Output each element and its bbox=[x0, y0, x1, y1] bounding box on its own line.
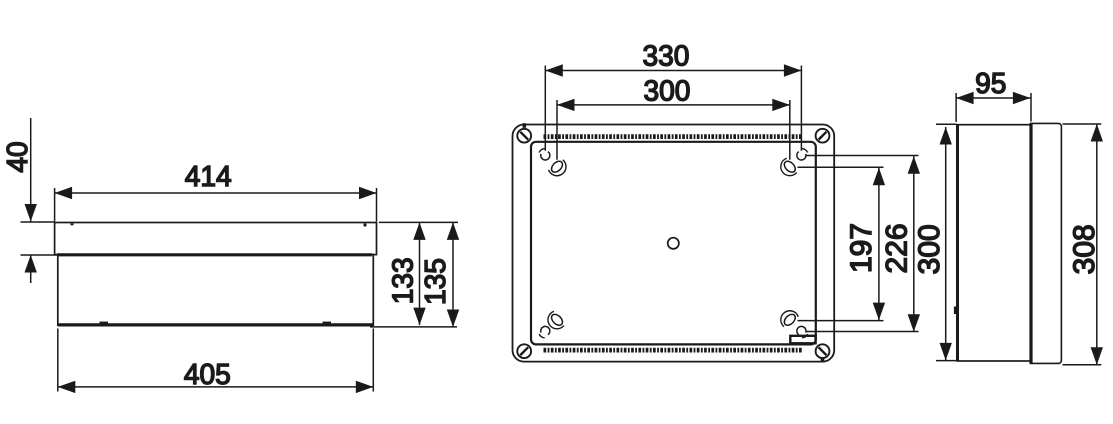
dim 414 ext line right bbox=[376, 188, 378, 222]
pilot hole C-circle top-left bbox=[539, 149, 550, 160]
svg-text:133: 133 bbox=[387, 257, 419, 304]
bottom vent dash row bbox=[544, 348, 804, 353]
latch tab below bottom-right screw bbox=[821, 358, 825, 363]
dim 300 right ext line top bbox=[936, 123, 957, 125]
foot tab right bbox=[323, 322, 332, 325]
svg-text:95: 95 bbox=[975, 68, 1006, 100]
dim 405 ext line right bbox=[372, 329, 374, 392]
lid bottom thick edge bbox=[57, 253, 372, 256]
dim 226 ext line top bbox=[806, 155, 919, 157]
dim 197 ext line top bbox=[798, 166, 884, 168]
dim 330 ext line left bbox=[544, 66, 546, 151]
dim 197 arrow up bbox=[873, 168, 885, 186]
dim 197 arrow down bbox=[873, 303, 885, 321]
pilot hole C-circle bottom-left bbox=[539, 326, 550, 337]
dim 135 line bbox=[452, 222, 454, 327]
dim 40 arrow down bbox=[25, 204, 37, 222]
dim 308 arrow up bbox=[1091, 124, 1103, 142]
dim 95 arrow left bbox=[956, 92, 974, 104]
pilot hole C-circle top-right bbox=[797, 149, 808, 160]
latch dot right on lid top bbox=[363, 223, 366, 226]
dim 133 line bbox=[419, 222, 421, 325]
dim 133 arrow down bbox=[413, 308, 425, 326]
dim 300 right arrow up bbox=[940, 127, 952, 145]
dim 95 line bbox=[956, 97, 1030, 99]
dim 40 ext line lower bbox=[21, 254, 59, 256]
inner wall rounded rect bbox=[531, 142, 816, 345]
foot tab left bbox=[100, 322, 109, 325]
dim 95 arrow right bbox=[1013, 92, 1031, 104]
svg-text:135: 135 bbox=[420, 258, 452, 305]
dim 308 arrow down bbox=[1091, 347, 1103, 365]
dim 226 arrow up bbox=[908, 156, 920, 174]
lid left thick edge bbox=[1029, 123, 1032, 363]
svg-text:405: 405 bbox=[184, 359, 231, 391]
svg-text:197: 197 bbox=[845, 223, 878, 273]
oval knockout top-right bbox=[777, 157, 799, 179]
latch tab above top-left screw bbox=[523, 123, 527, 128]
ext line top for 133/135 bbox=[379, 221, 458, 223]
dim 300 top arrow left bbox=[557, 99, 575, 111]
centre pilot circle bbox=[668, 238, 679, 249]
dim 40 arrow up bbox=[25, 255, 37, 273]
dim 40 leader line bottom bbox=[30, 255, 32, 283]
oval knockout bottom-right bbox=[777, 307, 799, 329]
svg-text:330: 330 bbox=[642, 40, 689, 72]
dim 135 arrow up bbox=[447, 222, 459, 240]
svg-text:226: 226 bbox=[881, 223, 914, 273]
dim 414 arrow left bbox=[55, 187, 73, 199]
dim 300 top arrow right bbox=[772, 99, 790, 111]
svg-text:40: 40 bbox=[2, 141, 34, 172]
svg-text:414: 414 bbox=[185, 161, 232, 193]
dim 300 top line bbox=[557, 104, 790, 106]
oval knockout bottom-left bbox=[544, 310, 566, 332]
screw bottom-left bbox=[517, 344, 531, 358]
pilot hole C-circle bottom-right bbox=[797, 326, 808, 337]
dim 414 ext line left bbox=[54, 188, 56, 222]
dim 405 line bbox=[58, 386, 374, 388]
dim 300 right ext line bottom bbox=[936, 360, 957, 362]
dim 308 ext line top bbox=[1063, 123, 1102, 125]
body outline bbox=[957, 125, 1030, 361]
dim 330 arrow right bbox=[784, 64, 802, 76]
dim 330 line bbox=[545, 70, 801, 72]
dim 330 ext line right bbox=[800, 66, 802, 151]
screw top-left bbox=[517, 129, 531, 143]
lid outline bbox=[55, 223, 377, 255]
screw bottom-right bbox=[816, 344, 830, 358]
latch dot left on lid top bbox=[71, 223, 74, 225]
dim 308 line bbox=[1096, 124, 1098, 365]
dim 95 ext line right bbox=[1030, 93, 1032, 122]
dim 197 line bbox=[878, 168, 880, 320]
dim 300 top ext line right bbox=[789, 100, 791, 160]
dim 133 arrow up bbox=[413, 222, 425, 240]
dim 300 right line bbox=[945, 127, 947, 360]
dim 40 leader line top bbox=[30, 118, 32, 222]
oval knockout top-left bbox=[548, 157, 570, 179]
dim 405 arrow left bbox=[58, 381, 76, 393]
top vent dash row bbox=[544, 134, 804, 139]
svg-text:300: 300 bbox=[643, 75, 690, 107]
dim 414 arrow right bbox=[359, 187, 377, 199]
outer body rounded rect bbox=[513, 125, 835, 362]
latch tick on body left edge bbox=[954, 307, 958, 315]
dim 405 arrow right bbox=[356, 381, 374, 393]
dim 197 ext line bottom bbox=[798, 320, 884, 322]
cable clamp rectangle bottom-right bbox=[790, 336, 815, 344]
ext line bottom for 135 bbox=[370, 326, 457, 328]
svg-text:300: 300 bbox=[913, 224, 946, 274]
dim 40 ext line upper bbox=[21, 221, 55, 223]
dim 330 arrow left bbox=[545, 64, 563, 76]
dim 95 ext line left bbox=[955, 93, 957, 122]
dim 226 arrow down bbox=[908, 314, 920, 332]
dim 226 ext line bottom bbox=[806, 331, 919, 333]
dim 135 arrow down bbox=[447, 310, 459, 328]
dim 300 right arrow down bbox=[940, 343, 952, 361]
body left thick edge bbox=[956, 125, 959, 361]
body bottom thick edge bbox=[58, 323, 374, 326]
dim 405 ext line left bbox=[57, 329, 59, 392]
svg-text:308: 308 bbox=[1068, 224, 1101, 274]
lid slab bbox=[1030, 123, 1061, 363]
screw top-right bbox=[816, 129, 830, 143]
dim 308 ext line bottom bbox=[1063, 364, 1102, 366]
body outline bbox=[58, 255, 374, 326]
dim 414 line bbox=[55, 192, 377, 194]
dim 300 top ext line left bbox=[556, 100, 558, 160]
dim 226 line bbox=[913, 156, 915, 331]
